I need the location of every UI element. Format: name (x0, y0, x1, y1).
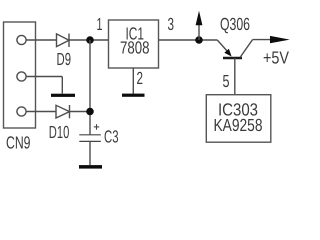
svg-text:2: 2 (137, 68, 144, 88)
wire vertical bus from D9 junction down to C3 (89, 40, 91, 135)
svg-text:CN9: CN9 (6, 133, 31, 153)
net arrow +5V (270, 36, 290, 43)
svg-text:1: 1 (97, 14, 103, 34)
polarity + of C3 (94, 124, 99, 130)
junction node at D10 cathode (86, 108, 94, 116)
wire D9 cathode to IC1 pin1 (69, 39, 109, 41)
IC1 7808 regulator body (109, 20, 159, 68)
svg-text:5: 5 (223, 71, 230, 91)
wire CN9 pin3 to D10 anode (26, 111, 56, 113)
ground symbol under IC1 pin2 (122, 94, 145, 97)
svg-text:D9: D9 (57, 49, 72, 69)
svg-text:C3: C3 (104, 127, 119, 147)
svg-text:KA9258: KA9258 (214, 115, 263, 135)
wire C3 to ground (89, 141, 91, 165)
wire D10 cathode to bus (70, 111, 91, 113)
wire Q306 collector to +5V arrow (253, 39, 273, 41)
ground symbol for CN9 pin2 (51, 94, 75, 97)
capacitor C3 (79, 135, 101, 142)
svg-text:+5V: +5V (263, 48, 289, 68)
svg-text:7808: 7808 (120, 38, 150, 58)
svg-text:D10: D10 (49, 122, 70, 142)
transistor Q306 (217, 40, 252, 95)
IC303 KA9258 body (206, 95, 270, 143)
wire IC1 pin2 to ground (132, 68, 134, 94)
svg-text:3: 3 (168, 14, 175, 34)
ground symbol under C3 (79, 165, 102, 169)
connector CN9 pin 1 circle (17, 35, 26, 44)
wire CN9 pin2 to ground (26, 77, 62, 94)
diode D9 (57, 34, 70, 48)
junction node after D9 (86, 36, 94, 44)
svg-text:Q306: Q306 (220, 14, 250, 34)
junction node on pin3 net (195, 36, 203, 44)
connector CN9 pin 2 circle (17, 72, 26, 81)
net arrow up from pin3 junction (196, 11, 203, 40)
wire CN9 pin1 to D9 anode (26, 39, 57, 41)
diode D10 (56, 105, 70, 118)
wire IC1 pin3 to Q306 emitter (159, 39, 218, 41)
connector CN9 body (4, 22, 36, 128)
connector CN9 pin 3 circle (17, 107, 26, 116)
